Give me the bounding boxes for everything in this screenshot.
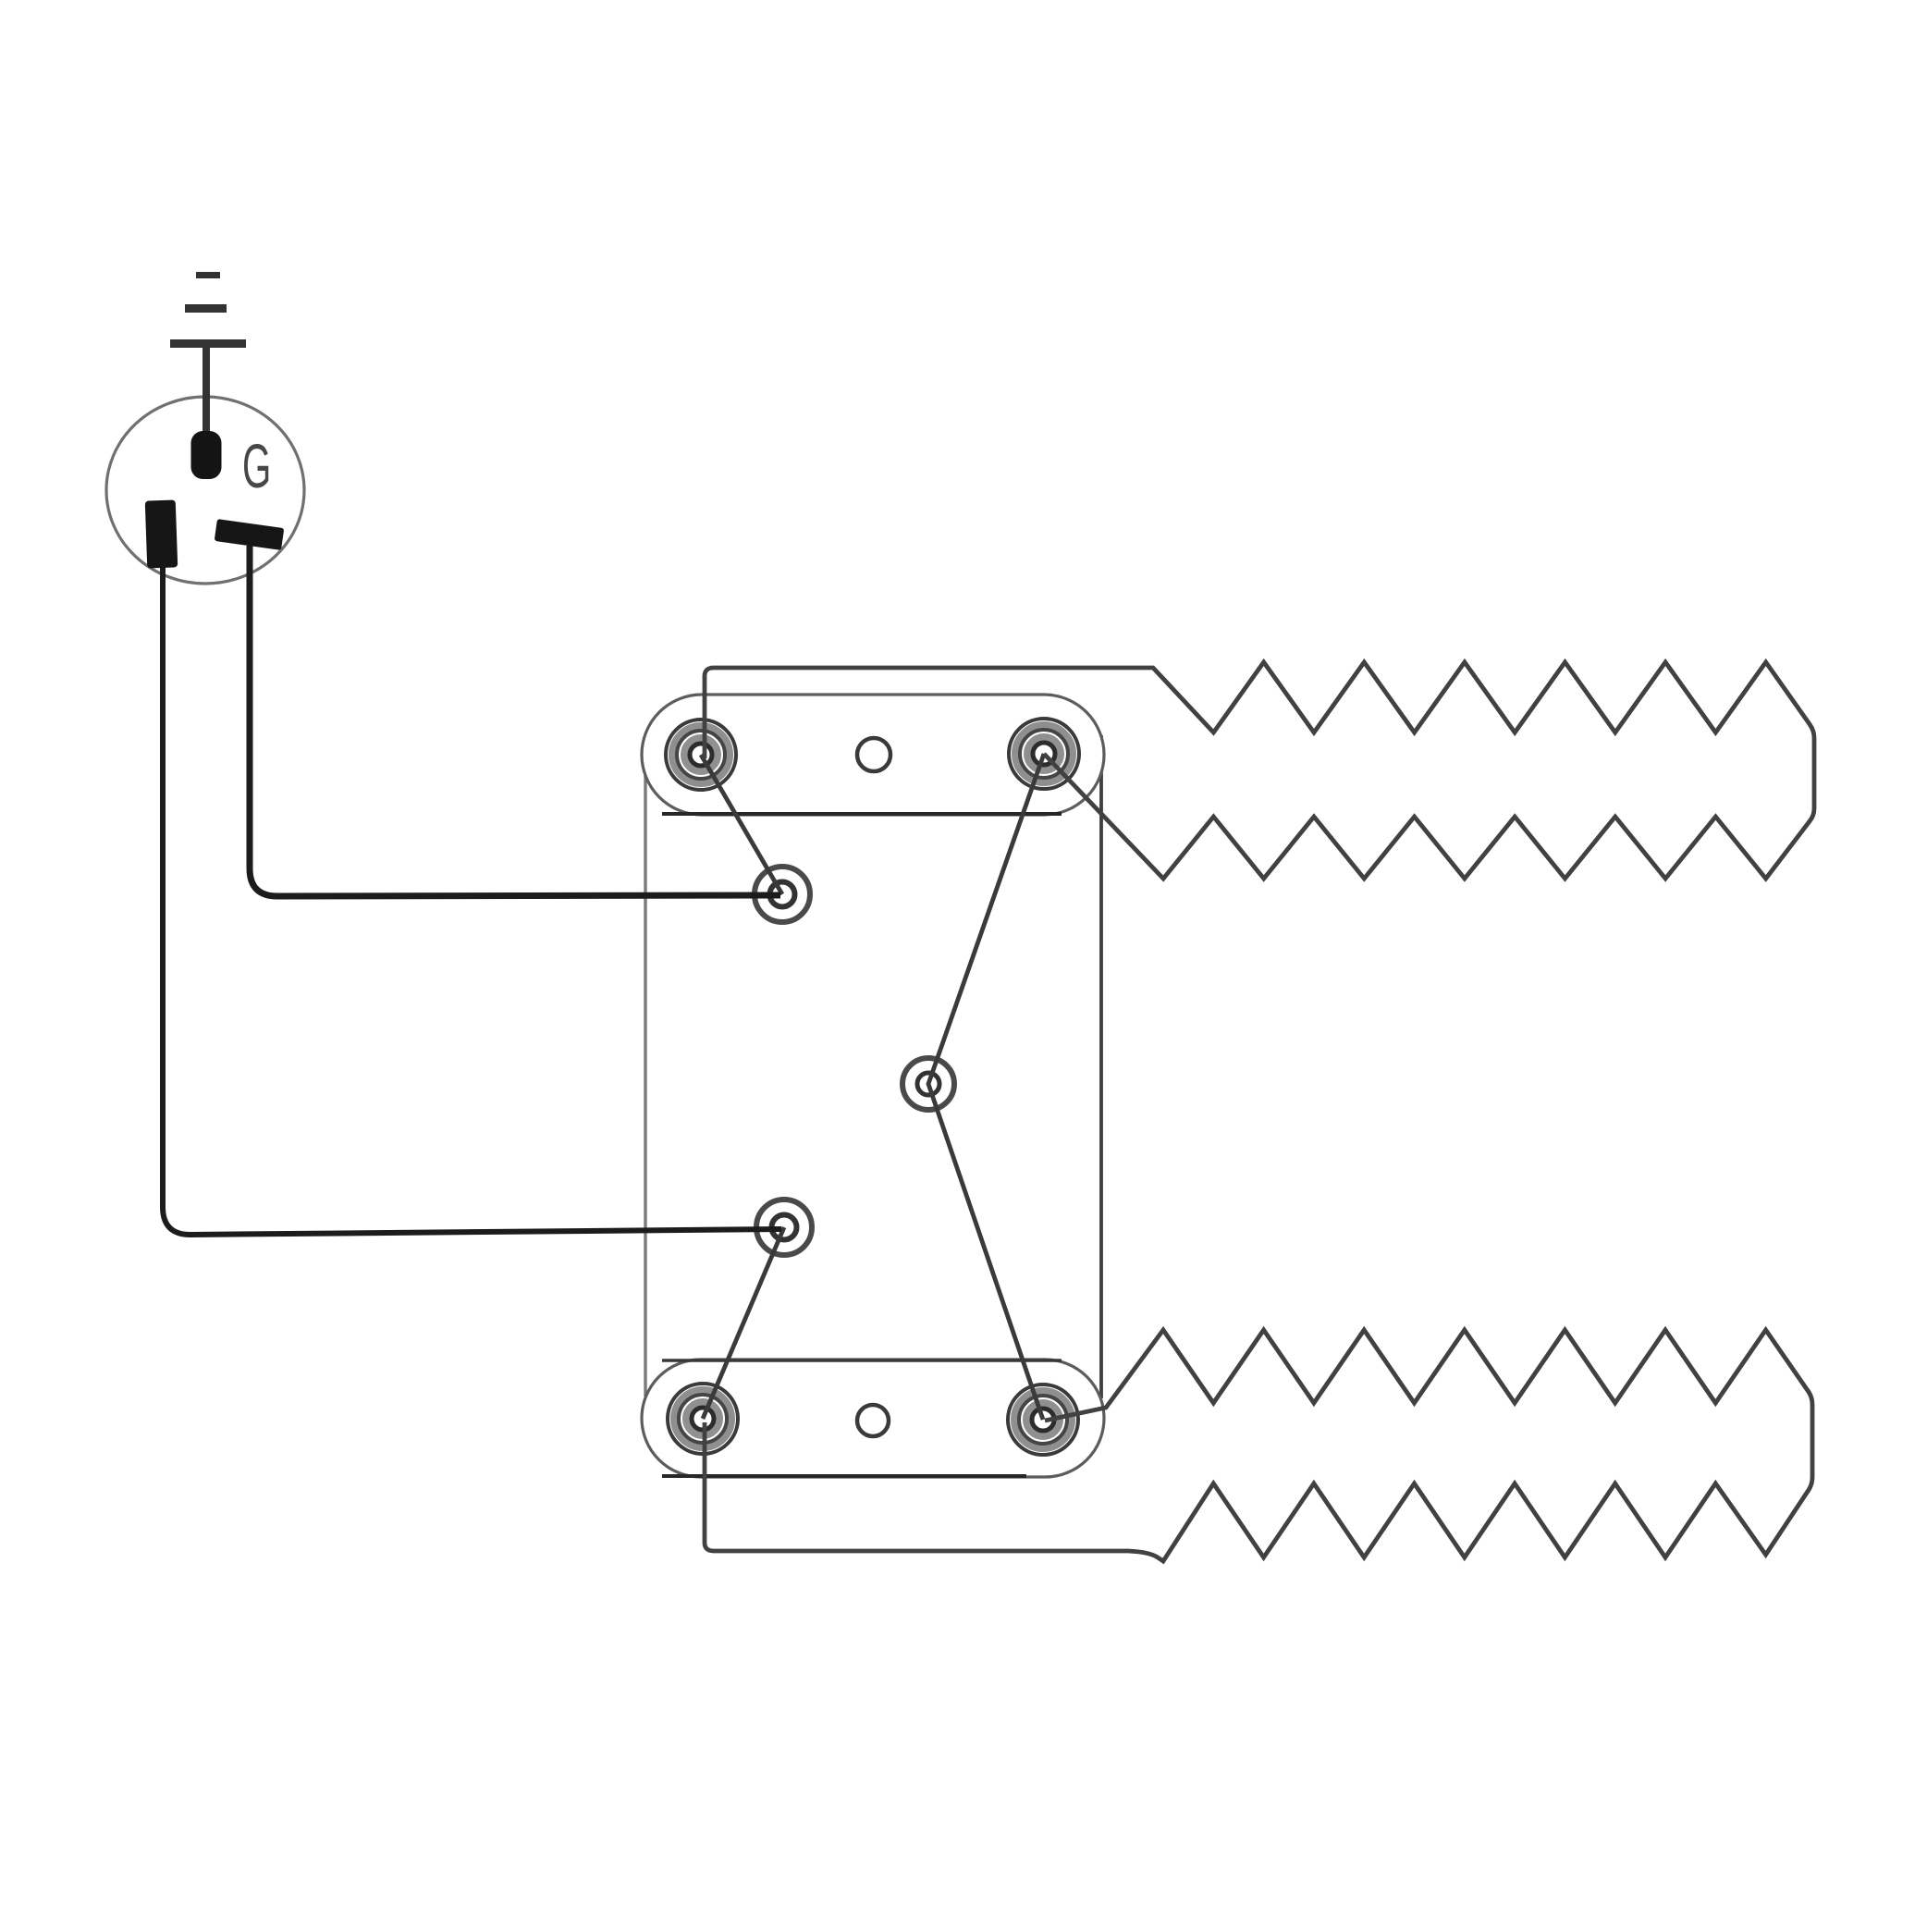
wire top-left terminal to mid upper lug — [701, 755, 782, 894]
screw terminal bottom-left — [668, 1384, 738, 1454]
mounting hole bottom — [857, 1405, 889, 1436]
screw terminal top-right — [1009, 719, 1079, 789]
mounting hole top — [857, 738, 890, 771]
ground symbol — [170, 276, 246, 436]
heating element bottom (coil R2 with lead wires) — [705, 1330, 1812, 1561]
power cord wire hot (right prong to mid upper lug) — [250, 546, 780, 896]
terminal mid lower (L2 lug) — [756, 1200, 812, 1255]
terminal block side line right — [1099, 735, 1103, 1398]
terminal mid upper (L1 lug) — [755, 867, 810, 922]
plug prong hot (right, horizontal) — [215, 519, 285, 550]
plug prong neutral (left) — [145, 499, 178, 568]
label G — [242, 431, 271, 500]
terminal block side line left — [644, 740, 646, 1397]
wire top-right terminal via center pivot to bottom-right terminal — [928, 754, 1044, 1420]
svg-text:G: G — [242, 431, 271, 500]
plug ground pin — [191, 431, 222, 479]
wire mid lower lug to bottom-left terminal — [703, 1227, 784, 1419]
screw terminal bottom-right — [1008, 1384, 1078, 1455]
terminal block bottom plate (stadium) — [642, 1360, 1104, 1477]
power cord wire neutral (left prong to mid lower lug) — [163, 566, 781, 1235]
plug body circle — [106, 397, 304, 584]
terminal center pivot — [902, 1058, 954, 1110]
screw terminal top-left — [666, 720, 736, 790]
heating element top (coil R1 with lead wires) — [705, 662, 1814, 879]
terminal block top plate (stadium) — [642, 695, 1104, 815]
